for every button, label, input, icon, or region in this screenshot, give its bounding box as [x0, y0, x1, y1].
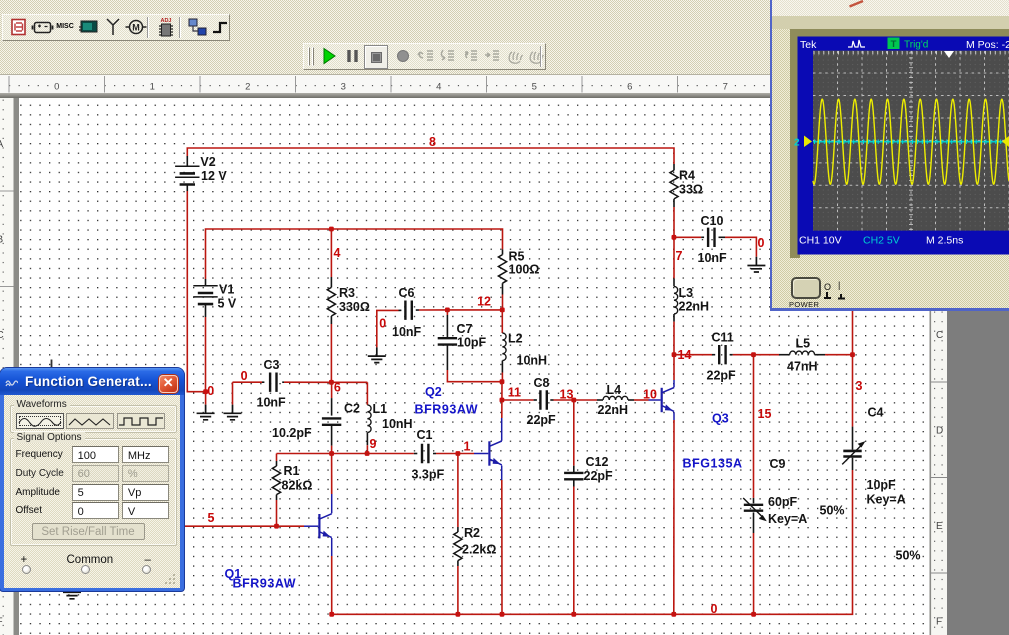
svg-text:L2: L2 [508, 332, 523, 346]
svg-text:10pF: 10pF [867, 478, 897, 492]
svg-text:100Ω: 100Ω [509, 263, 540, 277]
svg-text:1: 1 [464, 440, 471, 454]
svg-text:0: 0 [207, 384, 214, 398]
svg-text:Q3: Q3 [712, 412, 729, 426]
svg-text:330Ω: 330Ω [339, 300, 370, 314]
svg-text:6: 6 [334, 381, 341, 395]
svg-text:82kΩ: 82kΩ [282, 479, 313, 493]
svg-text:4: 4 [436, 82, 441, 93]
svg-text:22pF: 22pF [584, 469, 614, 483]
svg-text:10nF: 10nF [698, 251, 728, 265]
svg-text:3: 3 [856, 379, 863, 393]
svg-text:14: 14 [678, 348, 692, 362]
svg-text:C1: C1 [417, 428, 433, 442]
svg-text:0: 0 [379, 317, 386, 331]
svg-text:C9: C9 [770, 457, 786, 471]
svg-text:0: 0 [758, 236, 765, 250]
svg-text:M Pos: -2: M Pos: -2 [966, 39, 1009, 51]
svg-text:10: 10 [643, 388, 657, 402]
svg-text:L4: L4 [607, 383, 622, 397]
svg-text:60pF: 60pF [768, 495, 798, 509]
svg-text:Trig'd: Trig'd [904, 40, 928, 51]
svg-text:R2: R2 [464, 526, 480, 540]
svg-text:F: F [0, 617, 3, 628]
svg-text:50%: 50% [896, 549, 921, 563]
svg-text:BFR93AW: BFR93AW [415, 403, 479, 417]
svg-text:10nF: 10nF [257, 396, 287, 410]
svg-text:10pF: 10pF [457, 336, 487, 350]
svg-text:Key=A: Key=A [867, 493, 906, 507]
svg-text:V1: V1 [219, 283, 234, 297]
svg-text:R1: R1 [284, 464, 300, 478]
svg-text:M: M [132, 23, 140, 33]
svg-text:5: 5 [208, 511, 215, 525]
svg-text:T: T [891, 39, 897, 50]
svg-text:R5: R5 [509, 250, 525, 264]
svg-text:3.3pF: 3.3pF [412, 468, 445, 482]
svg-text:BFR93AW: BFR93AW [233, 577, 297, 591]
svg-text:C11: C11 [712, 331, 734, 345]
svg-text:6: 6 [627, 82, 632, 93]
svg-text:4: 4 [334, 246, 341, 260]
svg-text:10nH: 10nH [382, 417, 413, 431]
svg-text:Key=A: Key=A [768, 512, 807, 526]
svg-text:C4: C4 [868, 406, 884, 420]
svg-text:C2: C2 [344, 402, 360, 416]
svg-text:33Ω: 33Ω [679, 183, 703, 197]
svg-text:Tek: Tek [800, 39, 817, 51]
svg-text:F: F [936, 617, 942, 628]
svg-text:R4: R4 [679, 169, 695, 183]
svg-text:0: 0 [54, 82, 59, 93]
svg-text:C10: C10 [701, 214, 724, 228]
svg-text:5 V: 5 V [218, 297, 237, 311]
svg-text:0: 0 [711, 602, 718, 616]
svg-text:13: 13 [560, 388, 574, 402]
svg-text:22nH: 22nH [679, 300, 710, 314]
svg-text:22pF: 22pF [527, 413, 557, 427]
svg-text:2: 2 [245, 82, 250, 93]
svg-text:M 2.5ns: M 2.5ns [926, 235, 963, 247]
svg-text:47nH: 47nH [787, 360, 818, 374]
svg-text:E: E [936, 521, 943, 532]
svg-text:3: 3 [341, 82, 346, 93]
svg-text:C8: C8 [534, 376, 550, 390]
svg-text:L3: L3 [679, 286, 694, 300]
svg-text:2.2kΩ: 2.2kΩ [462, 543, 496, 557]
svg-text:Q2: Q2 [425, 385, 442, 399]
svg-text:22nH: 22nH [598, 403, 629, 417]
svg-text:BFG135A: BFG135A [683, 457, 743, 471]
svg-text:0: 0 [241, 369, 248, 383]
svg-text:C6: C6 [399, 286, 415, 300]
svg-text:C: C [936, 330, 943, 341]
svg-text:8: 8 [429, 135, 436, 149]
svg-text:7: 7 [676, 249, 683, 263]
svg-text:D: D [936, 426, 943, 437]
svg-text:2: 2 [794, 138, 800, 149]
svg-text:10.2pF: 10.2pF [272, 426, 312, 440]
svg-text:R3: R3 [339, 286, 355, 300]
svg-text:C12: C12 [586, 455, 609, 469]
svg-text:10nH: 10nH [517, 354, 548, 368]
svg-text:V2: V2 [200, 155, 215, 169]
svg-text:11: 11 [508, 386, 521, 400]
svg-text:22pF: 22pF [707, 369, 737, 383]
svg-text:15: 15 [758, 407, 772, 421]
svg-text:L5: L5 [796, 337, 811, 351]
svg-text:7: 7 [723, 82, 728, 93]
svg-text:9: 9 [370, 437, 377, 451]
svg-text:CH1 10V: CH1 10V [799, 235, 842, 247]
svg-text:12 V: 12 V [201, 169, 227, 183]
svg-text:50%: 50% [820, 504, 845, 518]
svg-text:C3: C3 [264, 358, 280, 372]
svg-text:ADJ: ADJ [160, 18, 171, 24]
svg-text:CH2 5V: CH2 5V [863, 235, 900, 247]
svg-text:C7: C7 [457, 322, 473, 336]
svg-text:1: 1 [150, 82, 155, 93]
svg-text:10nF: 10nF [392, 325, 422, 339]
svg-text:L1: L1 [373, 402, 388, 416]
svg-text:5: 5 [532, 82, 537, 93]
svg-text:12: 12 [477, 295, 491, 309]
